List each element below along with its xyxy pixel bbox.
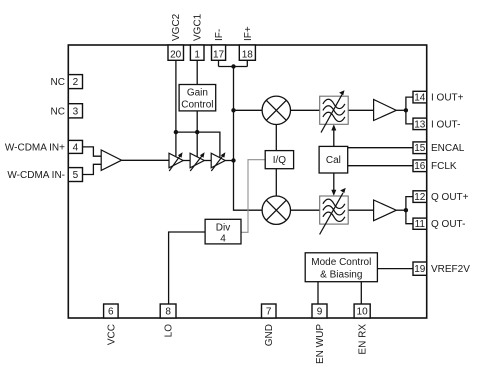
svg-text:18: 18 — [242, 50, 254, 61]
svg-text:I/Q: I/Q — [273, 155, 287, 166]
svg-text:VREF2V: VREF2V — [431, 264, 470, 275]
pin 6 VCC — [104, 304, 119, 345]
svg-text:NC: NC — [51, 106, 65, 117]
svg-text:ENCAL: ENCAL — [431, 143, 465, 154]
svg-text:Gain: Gain — [187, 88, 208, 99]
pin 3 NC — [51, 104, 83, 118]
svg-text:NC: NC — [51, 77, 65, 88]
svg-text:20: 20 — [170, 50, 182, 61]
filter F1 (tunable LPF) — [320, 90, 349, 132]
svg-text:3: 3 — [73, 106, 79, 117]
wire pin17 down — [218, 60, 220, 66]
svg-text:Q OUT-: Q OUT- — [431, 219, 465, 230]
wire Mode Control to VREF2V — [377, 268, 413, 270]
pin 17 IF- — [212, 29, 226, 61]
pin 11 Q OUT- — [413, 218, 465, 230]
svg-text:I OUT-: I OUT- — [431, 119, 460, 130]
VGA3 — [211, 152, 225, 171]
svg-text:6: 6 — [108, 307, 114, 318]
wire Mode Control to pin9 — [317, 282, 319, 304]
mixer M2 (Q) — [262, 196, 290, 224]
junction gain rail VGC1 — [195, 130, 199, 134]
wire I amp to bracket — [396, 109, 406, 111]
svg-text:5: 5 — [73, 170, 79, 181]
svg-text:IF-: IF- — [214, 29, 225, 41]
svg-text:VCC: VCC — [106, 324, 117, 345]
wire LO pin to Div4 — [169, 232, 206, 304]
pin 7 GND — [262, 304, 277, 346]
svg-text:W-CDMA IN+: W-CDMA IN+ — [5, 142, 65, 153]
svg-text:IF+: IF+ — [243, 26, 254, 41]
svg-text:15: 15 — [414, 143, 426, 154]
svg-text:LO: LO — [164, 324, 175, 338]
wire Cal to filter1 (arrow up) — [331, 124, 336, 146]
VGA2 — [190, 152, 205, 171]
filter F2 (tunable LPF) — [320, 188, 349, 235]
wire I/Q to lower mixer — [275, 169, 277, 196]
pin 18 IF+ — [239, 26, 255, 60]
svg-text:17: 17 — [213, 50, 225, 61]
svg-text:Div: Div — [216, 222, 230, 233]
wire IF rail branch to upper mixer — [234, 109, 263, 111]
wire IF tie — [219, 66, 248, 68]
wire Gain Control to VGA2 — [196, 111, 198, 157]
wire pin1 to Gain Control — [196, 60, 198, 84]
wire pin20 to gain rail and VGA1 — [175, 60, 177, 156]
svg-text:11: 11 — [415, 219, 426, 230]
wire input amp to VGA1 — [122, 159, 169, 161]
wire IF rail to lower mixer — [234, 67, 263, 211]
svg-text:Q OUT+: Q OUT+ — [431, 192, 469, 203]
svg-text:4: 4 — [73, 142, 79, 153]
svg-text:FCLK: FCLK — [431, 161, 457, 172]
wire upper mixer to I/Q — [275, 125, 277, 151]
I output amp A2 — [374, 100, 397, 121]
pin 13 I OUT- — [413, 118, 460, 130]
wire gain rail — [176, 132, 220, 158]
wire lower mixer to filter2 — [291, 209, 320, 211]
svg-text:4: 4 — [220, 234, 226, 245]
pin 5 W-CDMA IN- — [7, 168, 82, 182]
wire Q bracket — [406, 197, 413, 224]
wire filter2 to Q amp — [348, 209, 373, 211]
svg-text:2: 2 — [73, 77, 79, 88]
junction gain rail VGC2 — [174, 130, 178, 134]
mixer M1 (I) — [262, 96, 290, 124]
svg-text:EN WUP: EN WUP — [315, 324, 326, 364]
chip outline U1 — [68, 45, 426, 318]
wire Mode Control to pin10 — [360, 282, 362, 304]
wire pin18 down — [246, 60, 248, 66]
pin 2 NC — [51, 75, 83, 89]
svg-text:14: 14 — [414, 93, 426, 104]
svg-text:VGC1: VGC1 — [193, 13, 204, 41]
wire Cal to FCLK — [348, 165, 413, 167]
pin 10 EN RX — [354, 304, 370, 355]
pin 8 LO — [160, 304, 176, 337]
pin 14 I OUT+ — [413, 91, 464, 103]
wire filter1 to I amp — [348, 109, 373, 111]
svg-text:10: 10 — [357, 307, 369, 318]
junction IF tie — [231, 64, 235, 68]
wire Q amp to bracket — [396, 209, 406, 211]
svg-text:EN RX: EN RX — [358, 324, 369, 355]
wire VGA1 to VGA2 — [183, 160, 190, 162]
Mode Control & Biasing block — [305, 253, 377, 282]
svg-text:16: 16 — [414, 161, 426, 172]
svg-text:Mode Control: Mode Control — [311, 257, 371, 268]
svg-text:1: 1 — [194, 50, 200, 61]
wire VGA3 to IF rail — [225, 160, 233, 162]
pin 20 VGC2 — [168, 13, 184, 60]
svg-text:Control: Control — [181, 100, 213, 111]
wire pin4 to input amp — [83, 147, 102, 156]
Gain Control block — [179, 85, 216, 111]
svg-text:& Biasing: & Biasing — [320, 269, 362, 280]
wire Div4 to I/Q (LO path) — [241, 160, 265, 233]
svg-text:8: 8 — [165, 307, 171, 318]
pin 12 Q OUT+ — [413, 191, 469, 203]
svg-text:VGC2: VGC2 — [171, 13, 182, 41]
junction rail-upper mixer — [231, 108, 235, 112]
input amp A1 — [101, 150, 121, 170]
VGA1 — [169, 152, 183, 171]
wire Cal to ENCAL — [348, 147, 413, 149]
svg-text:12: 12 — [414, 192, 426, 203]
svg-text:W-CDMA IN-: W-CDMA IN- — [7, 170, 65, 181]
pin 19 VREF2V — [413, 262, 470, 275]
junction I amp output — [404, 108, 408, 112]
junction rail-VGA output — [231, 158, 235, 162]
Div 4 block — [205, 219, 241, 244]
junction Q amp output — [404, 208, 408, 212]
svg-text:I OUT+: I OUT+ — [431, 93, 464, 104]
svg-text:9: 9 — [317, 307, 323, 318]
svg-text:13: 13 — [414, 119, 426, 130]
wire I bracket — [406, 97, 413, 124]
pin 16 FCLK — [413, 160, 457, 172]
svg-text:7: 7 — [266, 307, 272, 318]
Cal block — [319, 146, 348, 173]
svg-text:GND: GND — [264, 324, 275, 346]
wire Cal to filter2 (arrow down) — [331, 173, 336, 196]
wire VGA2 to VGA3 — [204, 160, 211, 162]
I/Q block — [265, 151, 293, 169]
svg-text:19: 19 — [414, 264, 426, 275]
wire pin5 to input amp — [83, 164, 102, 174]
pin 15 ENCAL — [413, 142, 465, 154]
pin 9 EN WUP — [312, 304, 327, 364]
pin 4 W-CDMA IN+ — [5, 140, 83, 153]
Q output amp A3 — [374, 200, 397, 221]
pin 1 VGC1 — [190, 13, 204, 60]
wire upper mixer to filter1 — [291, 109, 320, 111]
svg-text:Cal: Cal — [326, 155, 341, 166]
